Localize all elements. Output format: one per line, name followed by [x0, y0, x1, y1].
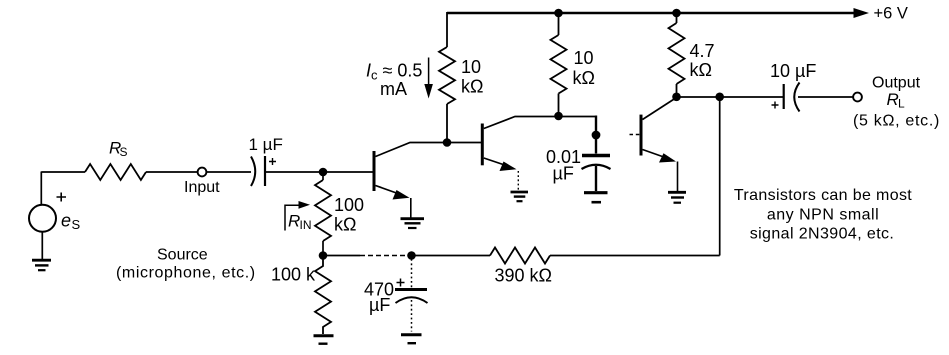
svg-text:10 µF: 10 µF — [770, 61, 816, 81]
ground (Q1 emitter) — [401, 217, 425, 220]
wire rail to R2 top — [558, 12, 560, 35]
svg-text:µF: µF — [553, 164, 574, 184]
wire C2 to ground (dotted) — [411, 300, 413, 332]
wire Q2 emitter to ground (dotted) — [517, 171, 519, 190]
wire Q3 collector node to C4 — [677, 96, 784, 98]
svg-text:Source: Source — [157, 247, 208, 264]
wire C1 to Q1 base (through node) — [265, 171, 373, 173]
wire Q1 emitter to ground — [410, 198, 412, 218]
wire 470uF node to C2 (dotted) — [411, 259, 413, 288]
current arrow Ic — [428, 58, 430, 85]
transistor Q3 base bar — [640, 115, 643, 156]
wire Q2 collector node to C3 — [595, 116, 597, 154]
wire 470uF node to R6 390k — [412, 255, 491, 257]
transistor Q3 collector lead — [643, 98, 677, 120]
capacitor C3 0.01uF (curved plate) — [582, 165, 611, 169]
capacitor C3 0.01uF (straight plate) — [582, 154, 610, 157]
svg-text:kΩ: kΩ — [690, 60, 712, 80]
ground (Q3 emitter) — [668, 191, 686, 194]
wire Q3 emitter to ground — [677, 162, 679, 192]
svg-text:IN: IN — [300, 218, 312, 232]
svg-text:R: R — [288, 212, 300, 231]
capacitor C2 470uF (straight plate) — [395, 288, 427, 291]
svg-text:signal 2N3904, etc.: signal 2N3904, etc. — [750, 226, 895, 243]
svg-text:mA: mA — [380, 79, 407, 99]
svg-text:(microphone, etc.): (microphone, etc.) — [116, 265, 256, 282]
svg-text:µF: µF — [369, 295, 390, 315]
wire feedback riser — [719, 97, 721, 256]
wire rail to R3 top — [676, 12, 678, 23]
capacitor C4 10uF (straight plate) — [783, 84, 785, 109]
ground (source) — [32, 259, 51, 262]
svg-text:4.7: 4.7 — [690, 41, 715, 61]
wire R1 bottom to Q1 collector node — [446, 104, 448, 143]
node base/bias junction — [319, 168, 328, 177]
transistor Q1 base bar — [373, 151, 376, 191]
resistor R1 10k (first stage collector) — [439, 47, 455, 104]
node C3 / Q3 base junction — [592, 131, 601, 140]
transistor Q3 emitter lead with arrow — [643, 150, 669, 159]
node rail-4.7k junction — [672, 9, 681, 18]
wire node to Q3 base (dotted) — [630, 134, 640, 136]
wire source bottom to ground — [41, 232, 43, 259]
svg-text:390 kΩ: 390 kΩ — [495, 266, 553, 286]
svg-text:S: S — [120, 145, 128, 159]
node Q3 collector junction — [672, 93, 681, 102]
node 470uF junction — [407, 251, 416, 260]
transistor Q2 base bar — [481, 124, 484, 166]
wire bias node to 470uF node (partly faint) — [323, 255, 360, 257]
node Input (open terminal) — [198, 168, 207, 177]
svg-text:10: 10 — [574, 48, 594, 68]
wire rail to R1 top — [446, 12, 448, 47]
label + (source polarity) — [57, 193, 67, 202]
wire R6 to feedback riser — [550, 255, 720, 257]
capacitor C1 1uF (curved plate) — [251, 157, 255, 187]
svg-text:Input: Input — [184, 179, 220, 196]
resistor R6 390k — [490, 248, 550, 264]
resistor RS — [85, 164, 146, 180]
transistor Q2 emitter lead with arrow — [484, 158, 509, 167]
transistor Q1 collector lead — [376, 143, 482, 157]
svg-text:100: 100 — [334, 195, 364, 215]
voltage source eS — [29, 205, 56, 232]
wire node to R4 — [322, 172, 324, 180]
svg-text:Output: Output — [872, 75, 921, 92]
wire R2 bottom to Q2 collector node — [558, 94, 560, 117]
wire C4 to output terminal — [798, 96, 853, 98]
label + (C1 polarity) — [269, 158, 276, 165]
node output/feedback junction — [715, 93, 724, 102]
ground (C2 bottom) — [401, 333, 422, 336]
wire R3 bottom to Q3 collector node — [676, 84, 678, 97]
impedance arrow RIN — [285, 205, 301, 230]
svg-text:1 µF: 1 µF — [249, 135, 283, 154]
svg-text:+6 V: +6 V — [874, 4, 908, 22]
capacitor C2 470uF (curved plate) — [396, 297, 428, 303]
capacitor C1 1uF (straight plate) — [264, 156, 266, 186]
svg-text:Transistors can be most: Transistors can be most — [734, 187, 912, 204]
wire +6V rail — [447, 12, 857, 15]
node rail-10k junction — [554, 9, 563, 18]
svg-text:10: 10 — [461, 57, 481, 77]
ground (R5 bottom) — [314, 334, 334, 337]
ground (C3 bottom) — [584, 191, 608, 194]
node Q1 collector junction — [443, 138, 452, 147]
resistor R4 100k (bias upper) — [315, 180, 331, 241]
node Q2 collector junction — [554, 112, 563, 121]
+6V rail arrowhead — [854, 8, 870, 18]
svg-text:S: S — [72, 217, 81, 232]
svg-text:kΩ: kΩ — [461, 77, 483, 97]
svg-text:L: L — [898, 97, 905, 111]
svg-text:e: e — [61, 211, 71, 231]
wire Rs to input node — [146, 171, 198, 173]
label + (C4 polarity) — [772, 102, 779, 109]
svg-text:kΩ: kΩ — [334, 215, 356, 235]
node bias junction — [319, 251, 328, 260]
node Output (open terminal) — [853, 93, 862, 102]
transistor Q1 emitter lead with arrow — [376, 186, 403, 196]
svg-text:R: R — [887, 90, 899, 109]
wire source top to main line — [40, 172, 42, 205]
ground (Q2 emitter) — [511, 191, 529, 194]
svg-text:any NPN small: any NPN small — [767, 207, 879, 224]
capacitor C4 10uF (curved plate) — [794, 83, 799, 112]
resistor R5 100k (bias lower) — [315, 256, 331, 335]
resistor R2 10k (second stage collector) — [551, 35, 567, 94]
wire C3 to ground — [595, 166, 597, 191]
label + (C2 polarity) — [397, 279, 405, 287]
svg-text:(5 kΩ, etc.): (5 kΩ, etc.) — [853, 113, 940, 130]
svg-text:100 k: 100 k — [271, 265, 316, 285]
wire main line source to Rs — [41, 171, 85, 173]
wire R4 bottom to bias node — [322, 241, 324, 256]
wire input node to C1 — [206, 171, 251, 173]
transistor Q2 collector lead — [484, 117, 596, 129]
resistor R3 4.7k — [669, 23, 685, 84]
svg-text:kΩ: kΩ — [573, 68, 595, 88]
